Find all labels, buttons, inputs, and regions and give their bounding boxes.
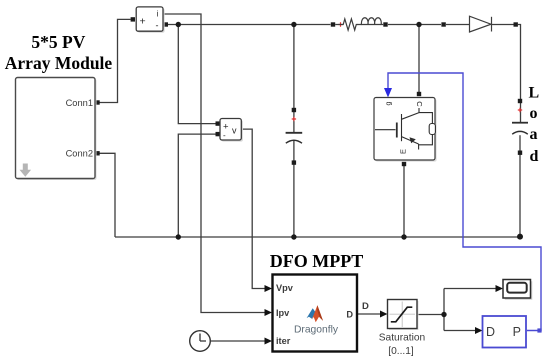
svg-text:D: D	[486, 325, 495, 339]
svg-text:L: L	[529, 85, 540, 102]
svg-text:5*5 PV: 5*5 PV	[31, 32, 85, 52]
svg-text:Ipv: Ipv	[276, 308, 290, 318]
svg-text:-: -	[223, 131, 226, 140]
svg-text:i: i	[157, 10, 159, 19]
svg-text:P: P	[513, 325, 521, 339]
svg-text:o: o	[530, 105, 538, 122]
svg-text:Array Module: Array Module	[5, 53, 113, 73]
svg-text:Conn2: Conn2	[66, 149, 93, 159]
svg-text:iter: iter	[276, 336, 291, 346]
svg-text:D: D	[346, 310, 353, 320]
svg-text:DFO MPPT: DFO MPPT	[270, 251, 363, 271]
svg-text:E: E	[398, 149, 407, 154]
svg-text:g: g	[385, 101, 392, 105]
svg-text:v: v	[232, 125, 237, 135]
svg-text:C: C	[415, 101, 424, 107]
svg-text:a: a	[530, 126, 538, 143]
svg-text:Vpv: Vpv	[276, 283, 294, 293]
svg-text:Saturation: Saturation	[379, 333, 425, 344]
svg-text:+: +	[140, 16, 146, 28]
svg-text:Conn1: Conn1	[66, 98, 93, 108]
svg-text:-: -	[156, 21, 159, 31]
svg-text:Dragonfly: Dragonfly	[294, 324, 339, 335]
svg-text:d: d	[530, 148, 539, 165]
svg-text:[0...1]: [0...1]	[388, 346, 414, 357]
svg-text:D: D	[362, 301, 369, 312]
